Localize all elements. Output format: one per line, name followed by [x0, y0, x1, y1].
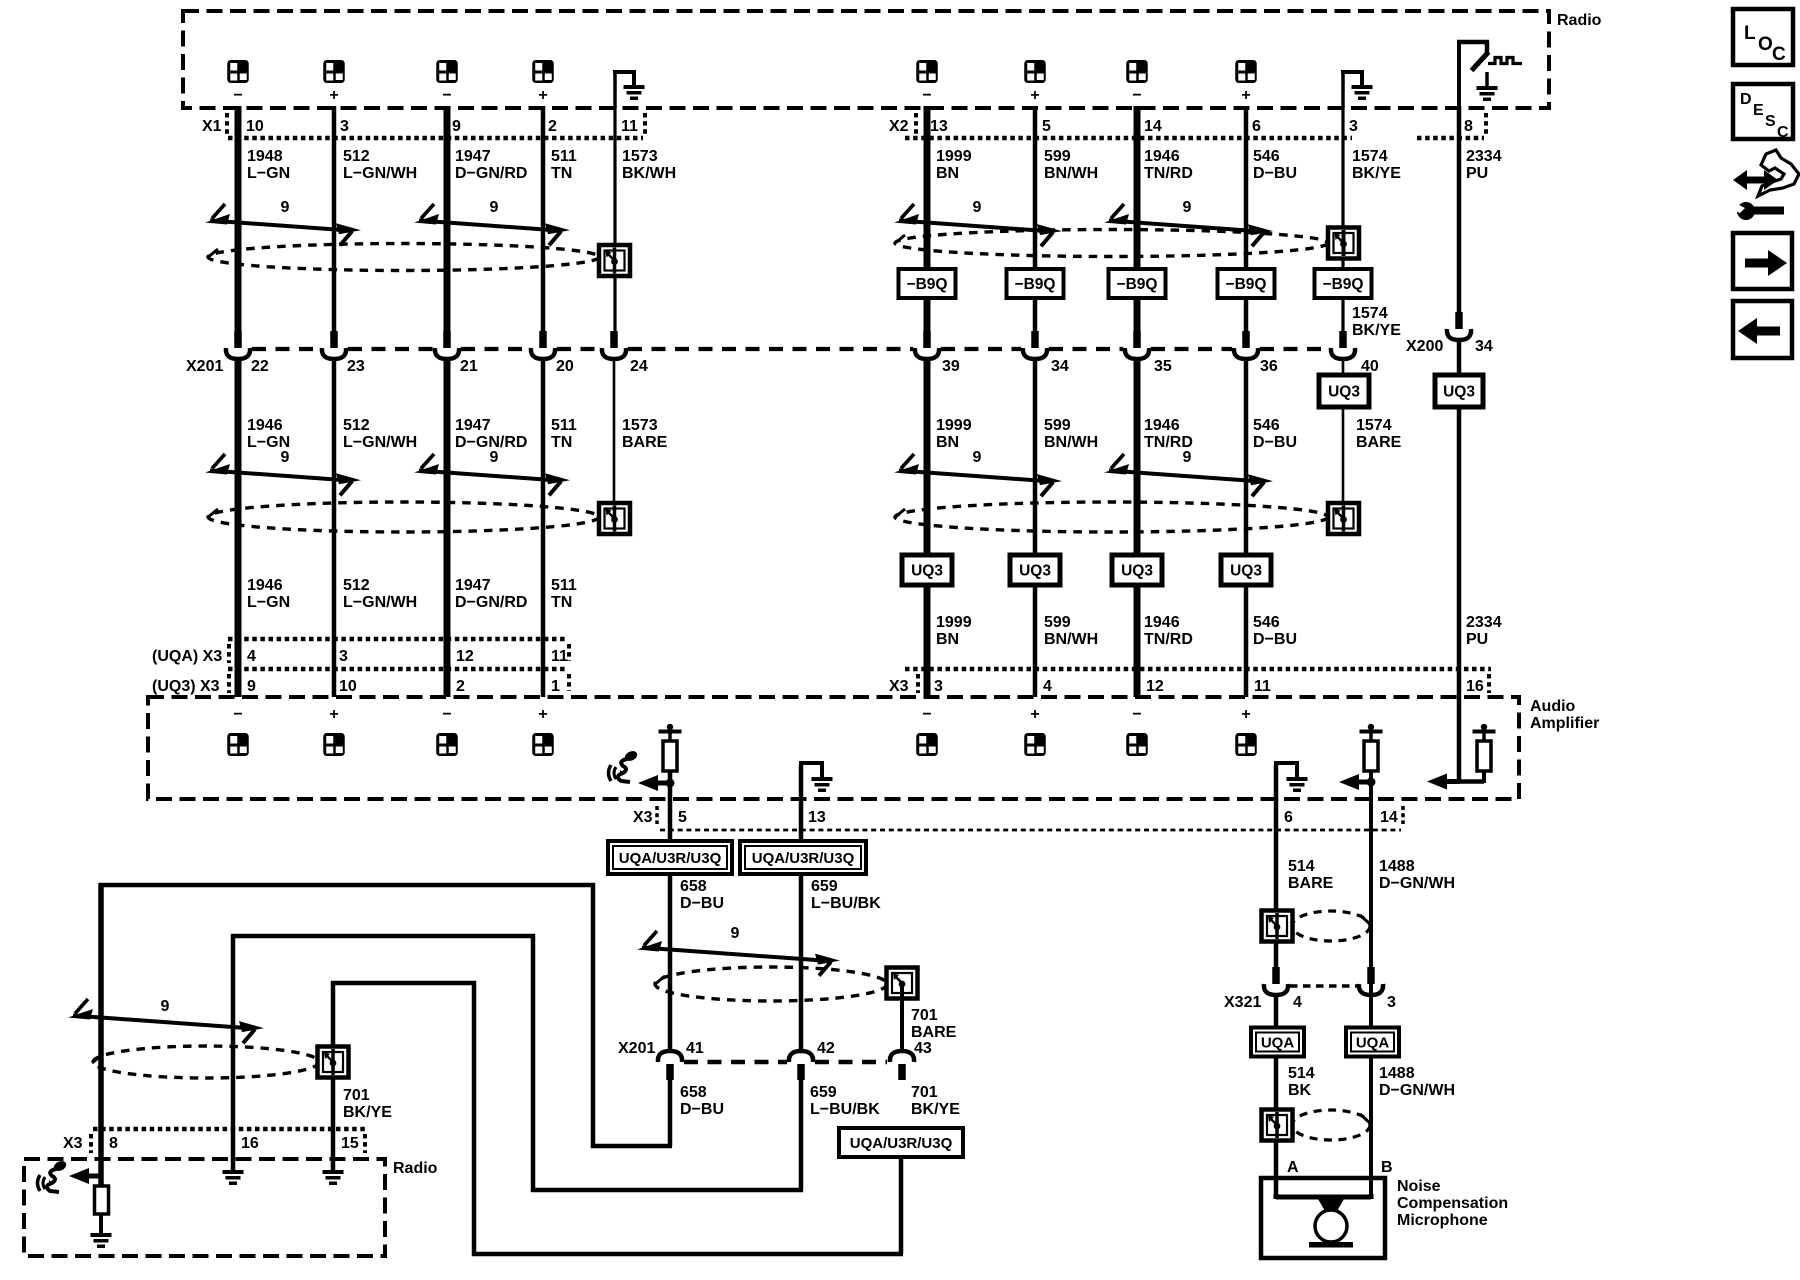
svg-text:4: 4 [1293, 994, 1302, 1011]
junction dot [666, 779, 675, 788]
svg-text:9: 9 [161, 998, 170, 1015]
option box -B9Q on wire x=1246 [1218, 269, 1275, 298]
svg-text:1999: 1999 [936, 148, 972, 165]
connector X3 dotted row (amp bottom) [660, 829, 1401, 832]
svg-text:D−BU: D−BU [1253, 631, 1297, 648]
wire 1946 L-GN (middle) [235, 358, 242, 697]
svg-text:Amplifier: Amplifier [1530, 715, 1599, 732]
twisted pair symbol (radio 8/16) [68, 999, 264, 1043]
ground inside amplifier (wire 659/pin13) [799, 763, 833, 841]
svg-text:10: 10 [246, 118, 264, 135]
bracket [655, 806, 659, 824]
wire label 1999 BN [936, 148, 972, 182]
svg-text:9: 9 [452, 118, 461, 135]
wire label 546 D&#8722;BU [1253, 148, 1297, 182]
svg-text:L−GN/WH: L−GN/WH [343, 434, 417, 451]
amplifier speaker input terminal x=1035 [1024, 733, 1046, 756]
splice X321 pin 3 [1359, 967, 1383, 995]
option box UQA (wire 514) [1251, 1028, 1304, 1057]
svg-text:659: 659 [811, 878, 838, 895]
option box UQA/U3R/U3Q (wire 701) [839, 1128, 963, 1157]
svg-text:35: 35 [1154, 358, 1172, 375]
svg-text:TN: TN [551, 594, 572, 611]
wire label 1573 BK/WH [622, 148, 676, 182]
icon double-arrow with wrench [1733, 150, 1799, 220]
splice X321 pin 4 [1264, 967, 1288, 995]
connector X3 dotted row (amplifier right) [905, 667, 1491, 672]
svg-text:L−BU/BK: L−BU/BK [810, 1101, 880, 1118]
svg-text:+: + [538, 706, 547, 723]
wire 1573 BK/WH (upper) [613, 106, 616, 331]
bracket [1401, 806, 1405, 824]
svg-text:4: 4 [247, 648, 256, 665]
svg-text:L−BU/BK: L−BU/BK [811, 895, 881, 912]
svg-text:3: 3 [1349, 118, 1358, 135]
connector X2 dotted row [905, 136, 1352, 141]
bracket [567, 674, 571, 691]
label X201 [618, 1040, 655, 1057]
svg-text:(UQ3) X3: (UQ3) X3 [152, 678, 220, 695]
svg-text:+: + [1241, 706, 1250, 723]
svg-text:TN/RD: TN/RD [1144, 165, 1193, 182]
wire 1999 BN (upper) [924, 106, 931, 331]
amplifier speaker input terminal x=334 [323, 733, 345, 756]
pin number 11 [621, 118, 638, 135]
splice X201 pin 23 [322, 331, 346, 359]
svg-text:−B9Q: −B9Q [1117, 276, 1158, 293]
shield termination box (701 BARE) [887, 968, 918, 999]
amplifier speaker input terminal x=543 [532, 733, 554, 756]
shield ellipse row2 (left) [207, 502, 599, 532]
svg-text:658: 658 [680, 878, 707, 895]
svg-text:1946: 1946 [1144, 148, 1180, 165]
svg-text:36: 36 [1260, 358, 1278, 375]
svg-text:1947: 1947 [455, 417, 491, 434]
polarity label &#8722; [442, 706, 451, 723]
pin number 2 (UQ3 row) [456, 678, 465, 695]
svg-text:BARE: BARE [911, 1024, 957, 1041]
resistor inside amplifier (wire 658) [659, 724, 682, 771]
connector X201 dashed line [252, 347, 1329, 351]
svg-text:3: 3 [339, 648, 348, 665]
pin number 5 (amp bottom X3) [678, 809, 687, 826]
wire label 512 L&#8722;GN/WH [343, 148, 417, 182]
wire 1574 BARE (drain) [1342, 358, 1345, 505]
X2 bracket [914, 113, 918, 134]
pin number 36 [1260, 358, 1278, 375]
polarity label &#8722; [233, 87, 242, 104]
svg-text:S: S [1765, 113, 1776, 130]
svg-text:+: + [538, 87, 547, 104]
svg-text:BN/WH: BN/WH [1044, 434, 1098, 451]
twisted pair symbol (1947/511) [414, 204, 570, 245]
wire label 658 D-BU [680, 878, 724, 912]
wire segment [1369, 771, 1373, 786]
label X1 [202, 118, 222, 135]
svg-text:L−GN: L−GN [247, 594, 290, 611]
Radio component box (top) [183, 11, 1549, 108]
svg-text:1948: 1948 [247, 148, 283, 165]
svg-text:−: − [922, 706, 931, 723]
pin number 3 [1349, 118, 1358, 135]
pin number 3 (UQA row) [339, 648, 348, 665]
svg-text:UQ3: UQ3 [911, 563, 943, 580]
pin number 24 [630, 358, 648, 375]
wire 658 D-BU (amp to X201) [668, 783, 673, 841]
svg-text:9: 9 [281, 449, 290, 466]
svg-text:23: 23 [347, 358, 365, 375]
label X3 [63, 1135, 83, 1152]
svg-text:UQA: UQA [1356, 1035, 1390, 1052]
label 9 [973, 199, 982, 216]
wire 658 segment [668, 874, 673, 1051]
pin number 34 [1475, 338, 1493, 355]
svg-text:22: 22 [251, 358, 269, 375]
polarity label &#8722; [1132, 87, 1141, 104]
bracket [363, 1134, 367, 1153]
wire label 701 BK/YE (lower) [911, 1084, 960, 1118]
svg-text:512: 512 [343, 148, 370, 165]
svg-text:UQ3: UQ3 [1230, 563, 1262, 580]
amplifier speaker input terminal x=1137 [1126, 733, 1148, 756]
svg-text:+: + [1030, 706, 1039, 723]
wire 658 route to radio pin 8 [99, 883, 672, 1148]
label X321 [1224, 994, 1261, 1011]
pin number 8 [1464, 118, 1473, 135]
svg-text:−: − [922, 87, 931, 104]
svg-text:PU: PU [1466, 165, 1488, 182]
svg-text:BN: BN [936, 631, 959, 648]
pin number 12 (UQA row) [456, 648, 474, 665]
shield ellipse row2 (right) [894, 502, 1328, 532]
polarity label + [329, 706, 338, 723]
svg-text:8: 8 [1464, 118, 1473, 135]
amplifier speaker input terminal x=1246 [1235, 733, 1257, 756]
svg-text:UQ3: UQ3 [1019, 563, 1051, 580]
svg-text:8: 8 [109, 1135, 118, 1152]
svg-text:E: E [1753, 102, 1764, 119]
label X201 [186, 358, 223, 375]
wire 1947 D-GN/RD (upper) [444, 106, 451, 331]
svg-text:546: 546 [1253, 417, 1280, 434]
pin number 20 [556, 358, 574, 375]
svg-text:BN: BN [936, 165, 959, 182]
svg-text:1946: 1946 [1144, 417, 1180, 434]
svg-text:BK/YE: BK/YE [1352, 165, 1401, 182]
svg-text:1573: 1573 [622, 148, 658, 165]
svg-text:UQA/U3R/U3Q: UQA/U3R/U3Q [619, 850, 722, 867]
svg-text:D−GN/WH: D−GN/WH [1379, 875, 1455, 892]
radio speaker output terminal at x=927 [916, 60, 938, 83]
svg-text:511: 511 [551, 577, 577, 594]
terminal label A [1287, 1159, 1299, 1176]
twisted pair symbol (1946/546) [1104, 204, 1273, 246]
pin number 16 (radio X3) [241, 1135, 259, 1152]
svg-text:X3: X3 [63, 1135, 83, 1152]
wire label 1488 D-GN/WH (lower) [1379, 1065, 1455, 1099]
svg-text:BARE: BARE [622, 434, 668, 451]
splice X201 pin 35 [1125, 331, 1149, 359]
svg-text:10: 10 [339, 678, 357, 695]
pin number 10 (UQ3 row) [339, 678, 357, 695]
ground symbol inside Radio (left, wire 1573) [613, 72, 645, 108]
svg-text:−B9Q: −B9Q [907, 276, 948, 293]
wire 546 D-BU (middle) [1244, 358, 1249, 697]
svg-text:1488: 1488 [1379, 858, 1415, 875]
pin number 5 [1042, 118, 1051, 135]
wire label 658 D-BU (lower) [680, 1084, 724, 1118]
svg-text:546: 546 [1253, 148, 1280, 165]
shield termination box (1573 BARE) [599, 503, 630, 534]
svg-text:UQA/U3R/U3Q: UQA/U3R/U3Q [752, 850, 855, 867]
polarity label &#8722; [922, 706, 931, 723]
splice X201 pin 36 [1234, 331, 1258, 359]
label (UQA) X3 [152, 648, 222, 665]
wire label 1947 D&#8722;GN/RD [455, 417, 527, 451]
pin number 42 [817, 1040, 835, 1057]
wire 599 BN/WH (upper) [1033, 106, 1038, 331]
wire 1947 D-GN/RD (middle) [444, 358, 451, 697]
polarity label &#8722; [233, 706, 242, 723]
pin number 15 (radio X3) [341, 1135, 359, 1152]
polarity label + [1030, 706, 1039, 723]
svg-text:546: 546 [1253, 614, 1280, 631]
svg-text:X2: X2 [889, 118, 909, 135]
svg-text:BK/YE: BK/YE [911, 1101, 960, 1118]
radio speaker output terminal at x=447 [436, 60, 458, 83]
resistor inside amplifier (2334) [1473, 724, 1496, 771]
svg-text:6: 6 [1284, 809, 1293, 826]
pin number 23 [347, 358, 365, 375]
wire 514 BARE (amp to X321) [1274, 941, 1279, 967]
wire label 1488 D-GN/WH [1379, 858, 1455, 892]
svg-text:X1: X1 [202, 118, 222, 135]
shield ellipse (radio) [92, 1046, 319, 1078]
wire label 1946 TN/RD [1144, 417, 1193, 451]
wire label 1999 BN [936, 614, 972, 648]
wire 1573 BARE (drain) [613, 358, 616, 505]
svg-text:9: 9 [281, 199, 290, 216]
svg-text:514: 514 [1288, 858, 1315, 875]
svg-text:3: 3 [934, 678, 943, 695]
svg-text:UQ3: UQ3 [1443, 384, 1475, 401]
pin number 9 [452, 118, 461, 135]
radio speaker output terminal at x=1246 [1235, 60, 1257, 83]
svg-text:658: 658 [680, 1084, 707, 1101]
option box UQA (wire 1488) [1346, 1028, 1399, 1057]
pin number 6 (amp bottom X3) [1284, 809, 1293, 826]
twisted pair symbol (1946/546) [1104, 454, 1273, 496]
pin number 39 [942, 358, 960, 375]
pin number 3 (amp X3) [934, 678, 943, 695]
svg-text:40: 40 [1361, 358, 1379, 375]
svg-text:14: 14 [1144, 118, 1162, 135]
wire label 1573 BARE [622, 417, 668, 451]
amplifier speaker input terminal x=238 [227, 733, 249, 756]
connector X1 dotted row [228, 136, 643, 141]
option box UQ3 (wire 1574) [1319, 375, 1369, 407]
option box UQA/U3R/U3Q (wire 659) [740, 841, 866, 874]
svg-text:PU: PU [1466, 631, 1488, 648]
wire label 1574 BK/YE (below -B9Q) [1352, 305, 1401, 339]
shield termination box (wire 1574) [1328, 228, 1359, 259]
pin number 14 (amp bottom X3) [1380, 809, 1398, 826]
splice X201 pin 24 [602, 331, 626, 359]
svg-text:−B9Q: −B9Q [1015, 276, 1056, 293]
polarity label + [1241, 706, 1250, 723]
radio speaker output terminal at x=1137 [1126, 60, 1148, 83]
polarity label &#8722; [922, 87, 931, 104]
svg-text:12: 12 [456, 648, 474, 665]
option box -B9Q on wire x=927 [899, 269, 956, 298]
splice X201 pin 34 [1023, 331, 1047, 359]
wire label 1946 L&#8722;GN [247, 577, 290, 611]
signal arrow to horn (radio pin 8) [69, 1168, 102, 1184]
wire label 1574 BARE [1356, 417, 1402, 451]
signal arrow (1488) [1339, 774, 1372, 790]
pin number 12 (amp X3) [1146, 678, 1164, 695]
splice X200 pin 34 [1447, 312, 1471, 340]
X1 right bracket [643, 113, 647, 134]
svg-text:L−GN: L−GN [247, 165, 290, 182]
wire label 599 BN/WH [1044, 614, 1098, 648]
option box UQA/U3R/U3Q (wire 658) [608, 841, 732, 874]
svg-text:4: 4 [1043, 678, 1052, 695]
svg-text:39: 39 [942, 358, 960, 375]
shield ellipse (mic upper) [1292, 911, 1371, 941]
svg-text:D−BU: D−BU [680, 1101, 724, 1118]
label 9 [281, 449, 290, 466]
svg-text:+: + [329, 87, 338, 104]
junction dot [1367, 778, 1376, 787]
svg-text:X200: X200 [1406, 338, 1443, 355]
svg-text:D−GN/RD: D−GN/RD [455, 594, 527, 611]
svg-text:BN: BN [936, 434, 959, 451]
connector row for radio pin 8 [1417, 136, 1484, 141]
svg-text:X3: X3 [633, 809, 653, 826]
ground (radio pin 15) [323, 1170, 344, 1185]
svg-text:1574: 1574 [1352, 148, 1388, 165]
svg-text:5: 5 [1042, 118, 1051, 135]
wire 659 segment [799, 874, 804, 1051]
wire label 701 BARE [911, 1007, 957, 1041]
svg-text:11: 11 [1254, 678, 1271, 695]
svg-text:(UQA) X3: (UQA) X3 [152, 648, 222, 665]
svg-text:14: 14 [1380, 809, 1398, 826]
pin number 2 [548, 118, 557, 135]
svg-text:9: 9 [973, 199, 982, 216]
svg-text:599: 599 [1044, 614, 1071, 631]
svg-text:X201: X201 [186, 358, 223, 375]
label X200 [1406, 338, 1443, 355]
svg-text:1574: 1574 [1352, 305, 1388, 322]
svg-text:2: 2 [456, 678, 465, 695]
connector X321 dashed line [1290, 984, 1357, 988]
svg-text:L−GN/WH: L−GN/WH [343, 165, 417, 182]
polarity label + [538, 706, 547, 723]
svg-text:X321: X321 [1224, 994, 1261, 1011]
wire 2334 elbow + signal arrow [1427, 774, 1484, 790]
pin number 11 (amp X3) [1254, 678, 1271, 695]
wire 701 BARE [900, 998, 904, 1051]
svg-text:A: A [1287, 1159, 1299, 1176]
svg-text:Radio: Radio [393, 1160, 438, 1177]
ground symbol inside Radio (right, wire 1574) [1341, 72, 1373, 108]
svg-text:Audio: Audio [1530, 698, 1576, 715]
icon box DESC [1733, 84, 1793, 141]
svg-text:41: 41 [686, 1040, 704, 1057]
svg-text:701: 701 [911, 1084, 938, 1101]
svg-text:TN: TN [551, 165, 572, 182]
label 9 [731, 925, 740, 942]
svg-text:24: 24 [630, 358, 648, 375]
wire label 701 BK/YE (radio side) [343, 1087, 392, 1121]
svg-text:1947: 1947 [455, 577, 491, 594]
svg-text:1: 1 [551, 678, 560, 695]
svg-text:511: 511 [551, 417, 577, 434]
svg-text:9: 9 [1183, 199, 1192, 216]
Audio Amplifier component box [148, 697, 1519, 799]
svg-text:21: 21 [460, 358, 478, 375]
svg-text:1488: 1488 [1379, 1065, 1415, 1082]
wire label 511 TN [551, 577, 577, 611]
wire label 659 L-BU/BK (lower) [810, 1084, 880, 1118]
ground (radio pin 16) [223, 1170, 244, 1185]
splice X201 pin 41 [658, 1051, 682, 1080]
label 9 [973, 449, 982, 466]
pin number 9 (UQ3 row) [247, 678, 256, 695]
svg-text:UQ3: UQ3 [1328, 384, 1360, 401]
svg-text:1946: 1946 [247, 417, 283, 434]
svg-text:UQA/U3R/U3Q: UQA/U3R/U3Q [850, 1135, 953, 1152]
wire label 599 BN/WH [1044, 148, 1098, 182]
svg-text:16: 16 [1466, 678, 1484, 695]
connector X3 dotted row (radio bottom) [93, 1127, 365, 1132]
svg-text:514: 514 [1288, 1065, 1315, 1082]
ground (radio pin 8) [91, 1233, 112, 1248]
label 9 [161, 998, 170, 1015]
label (UQ3) X3 [152, 678, 220, 695]
bracket [1487, 674, 1491, 693]
label X3 [633, 809, 653, 826]
wire 1488 D-GN/WH (amp to mic) [1369, 782, 1373, 1197]
svg-text:−: − [1132, 706, 1141, 723]
bracket [89, 1134, 93, 1153]
svg-text:−: − [442, 706, 451, 723]
svg-text:D−GN/WH: D−GN/WH [1379, 1082, 1455, 1099]
pin number 8 (radio X3) [109, 1135, 118, 1152]
Noise Compensation Microphone box [1261, 1178, 1385, 1258]
svg-text:L: L [1744, 23, 1756, 44]
option box -B9Q on wire x=1343 [1315, 269, 1372, 298]
label Radio [1557, 12, 1602, 29]
option box -B9Q on wire x=1137 [1109, 269, 1166, 298]
wire label 1947 D&#8722;GN/RD [455, 577, 527, 611]
shield ellipse (right rear speakers) [894, 230, 1328, 257]
label Audio Amplifier [1530, 698, 1599, 732]
polarity label + [1241, 87, 1250, 104]
svg-text:−B9Q: −B9Q [1226, 276, 1267, 293]
connector (UQA) X3 dotted row [228, 637, 567, 642]
pin-8 bracket [1484, 113, 1488, 134]
svg-text:512: 512 [343, 417, 370, 434]
splice X201 pin 21 [435, 331, 459, 359]
svg-text:B: B [1381, 1159, 1393, 1176]
twisted pair symbol (1999/599) [894, 454, 1062, 496]
horn icon (radio) [38, 1159, 68, 1192]
svg-text:D−BU: D−BU [1253, 165, 1297, 182]
svg-text:BK/YE: BK/YE [343, 1104, 392, 1121]
